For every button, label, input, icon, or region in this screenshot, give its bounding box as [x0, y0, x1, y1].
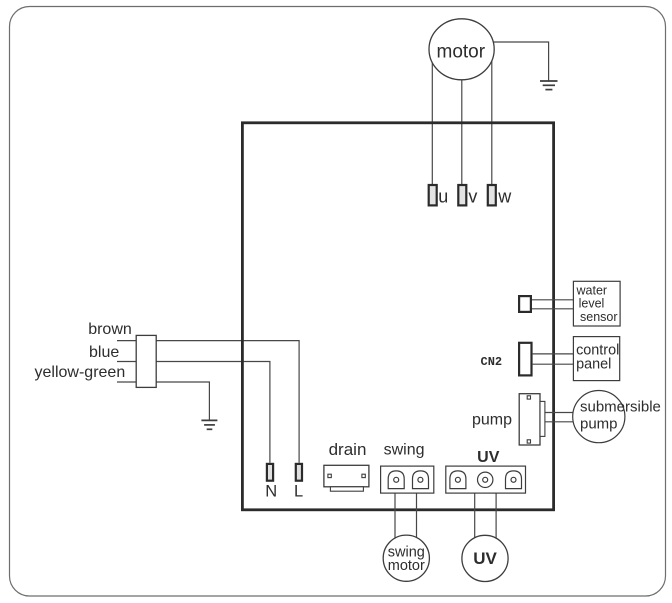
terminal L [296, 464, 302, 481]
svg-text:water: water [576, 284, 608, 298]
wire motor to terminal V [461, 52, 463, 184]
submersible pump P [573, 391, 661, 443]
wire brown to terminal L [156, 341, 299, 463]
terminal W [488, 185, 496, 205]
wire swing socket 2 to swing motor [416, 493, 418, 545]
swing motor SM [383, 535, 429, 581]
svg-text:CN2: CN2 [481, 355, 503, 369]
svg-text:w: w [497, 186, 512, 206]
UV lamp [462, 535, 508, 581]
wire CN2 pin 1 [533, 353, 574, 355]
control board [242, 123, 553, 510]
drain connector [324, 465, 369, 491]
svg-text:swing: swing [384, 441, 425, 458]
swing connector [381, 466, 434, 493]
svg-text:drain: drain [329, 440, 367, 459]
svg-text:motor: motor [388, 558, 425, 574]
water level sensor connector [519, 296, 531, 312]
motor M [429, 19, 494, 80]
water level sensor box [573, 281, 620, 326]
svg-text:u: u [438, 186, 448, 206]
svg-text:UV: UV [473, 549, 497, 568]
wire pump pin 1 to submersible pump [545, 412, 575, 414]
svg-text:pump: pump [472, 412, 512, 429]
wire yellow-green to ground [156, 382, 209, 420]
svg-text:L: L [294, 483, 303, 501]
svg-text:panel: panel [576, 357, 611, 373]
terminal U [429, 185, 437, 205]
terminal N [267, 464, 273, 481]
wire motor to terminal W [491, 52, 493, 184]
wire yellow-green lead-in [117, 381, 136, 383]
wire motor to terminal U [431, 52, 433, 184]
control panel box [573, 337, 619, 381]
wire water level sensor pin 2 [532, 308, 573, 310]
svg-text:v: v [468, 186, 477, 206]
svg-text:yellow-green: yellow-green [35, 364, 126, 381]
svg-text:N: N [265, 483, 277, 501]
connector CN2 [519, 343, 531, 376]
wire CN2 pin 2 [533, 363, 574, 365]
wire blue to terminal N [156, 362, 270, 463]
wire UV socket to UV lamp right [495, 493, 497, 545]
svg-text:blue: blue [89, 344, 119, 361]
svg-text:motor: motor [437, 42, 486, 63]
pump connector [519, 394, 545, 445]
UV connector [446, 466, 526, 493]
wire pump pin 2 to submersible pump [545, 421, 575, 423]
svg-text:pump: pump [580, 416, 618, 433]
wire blue lead-in [117, 361, 136, 363]
svg-text:sensor: sensor [580, 310, 618, 324]
svg-text:brown: brown [88, 321, 132, 338]
wire UV socket to UV lamp left [474, 493, 476, 545]
wire water level sensor pin 1 [532, 299, 573, 301]
wire brown lead-in [117, 340, 136, 342]
svg-text:UV: UV [477, 449, 500, 466]
power inlet connector [136, 335, 156, 387]
wire swing socket 1 to swing motor [394, 493, 396, 545]
svg-text:level: level [579, 297, 605, 311]
ground (motor earth) [540, 81, 558, 90]
terminal V [458, 185, 466, 205]
svg-text:submersible: submersible [580, 399, 661, 416]
ground (yellow-green earth) [201, 420, 217, 429]
wire motor to ground [462, 42, 549, 81]
